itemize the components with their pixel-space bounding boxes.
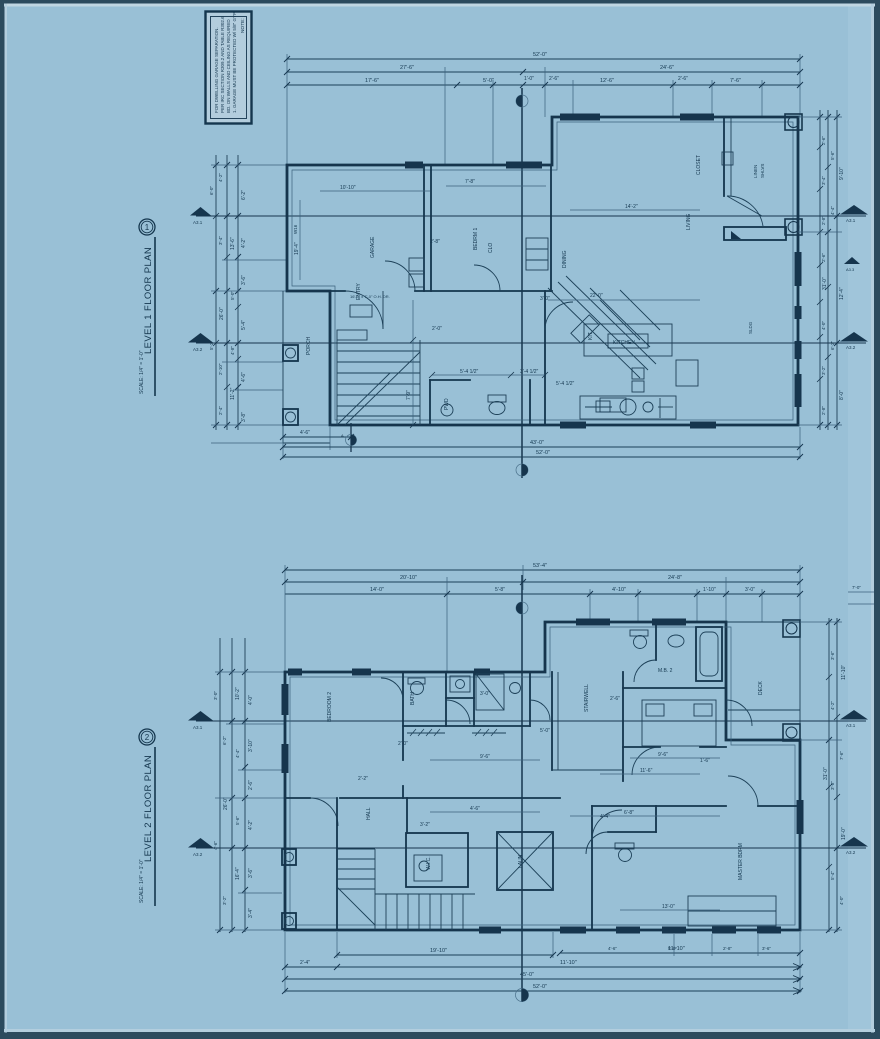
svg-text:2'-8": 2'-8" bbox=[430, 239, 440, 245]
bottom extension verticals plan1 bbox=[282, 427, 284, 459]
window right wall 2 bbox=[795, 374, 802, 407]
svg-text:26'-0": 26'-0" bbox=[219, 307, 225, 320]
svg-text:14'-0": 14'-0" bbox=[370, 587, 384, 593]
svg-text:PER IRC SECTION R309.2 AND TAB: PER IRC SECTION R309.2 AND TABLE R302.6 bbox=[220, 16, 225, 113]
understair diagonal closet bbox=[548, 276, 660, 378]
mb2 tub bbox=[696, 627, 722, 681]
interior dim line powder bbox=[432, 374, 545, 376]
deck inner rail bbox=[728, 709, 800, 711]
inner wall face p2 bbox=[290, 627, 795, 925]
section marker left B bbox=[188, 333, 213, 343]
svg-text:A3.1: A3.1 bbox=[193, 725, 203, 730]
svg-text:PORCH: PORCH bbox=[306, 337, 312, 355]
svg-text:12'-4": 12'-4" bbox=[839, 287, 845, 300]
svg-text:10'-10": 10'-10" bbox=[340, 185, 356, 191]
svg-text:3'-4": 3'-4" bbox=[248, 908, 254, 918]
svg-text:5'-6": 5'-6" bbox=[235, 816, 240, 825]
wall/counter below closet bbox=[724, 227, 786, 240]
hall wall y=798 bbox=[285, 797, 310, 799]
svg-text:24'-6": 24'-6" bbox=[660, 65, 674, 71]
top dimension line total bbox=[287, 58, 800, 60]
svg-text:52'-0": 52'-0" bbox=[536, 450, 550, 456]
section line D (y=848) bbox=[196, 847, 866, 849]
svg-text:5'-0": 5'-0" bbox=[230, 291, 235, 300]
exterior wall outline plan1 bbox=[287, 117, 798, 425]
window block at partition top bbox=[405, 162, 423, 169]
svg-text:BD. ON WALLS AND CEILING AS RE: BD. ON WALLS AND CEILING AS REQUIRED bbox=[226, 19, 231, 113]
windows left wall p2 bbox=[282, 684, 289, 715]
bottom dims p2 bbox=[337, 954, 553, 956]
svg-text:A3.2: A3.2 bbox=[846, 850, 856, 855]
dining door arc bbox=[545, 302, 573, 330]
small marker right mid bbox=[844, 257, 860, 264]
svg-text:3'-2": 3'-2" bbox=[821, 366, 826, 375]
svg-text:20'-10": 20'-10" bbox=[400, 575, 417, 581]
svg-text:3'-4": 3'-4" bbox=[218, 236, 223, 245]
right dim columns p2 bbox=[828, 618, 830, 932]
mb2 sink bbox=[668, 635, 684, 647]
centerline datum top bbox=[521, 88, 523, 478]
light inner strip bottom bbox=[4, 1029, 875, 1032]
small bath walls lower right bbox=[608, 831, 656, 833]
window bath top wall p2 bbox=[474, 669, 490, 676]
window right wall 3 bbox=[795, 306, 802, 319]
dim ticks top bbox=[284, 56, 803, 88]
datum bottom p2 bbox=[516, 989, 529, 1002]
svg-text:3'-2": 3'-2" bbox=[420, 822, 430, 828]
sink powder bbox=[441, 404, 453, 416]
svg-text:10'-2": 10'-2" bbox=[235, 687, 241, 700]
svg-text:ENTRY: ENTRY bbox=[356, 282, 362, 300]
stairs p2 bbox=[337, 849, 475, 930]
svg-text:3'-6": 3'-6" bbox=[241, 275, 247, 285]
stairs plan1 bbox=[337, 340, 420, 425]
title 2: LEVEL 2 FLOOR PLAN bbox=[139, 729, 155, 906]
svg-text:LEVEL 2 FLOOR PLAN: LEVEL 2 FLOOR PLAN bbox=[143, 755, 154, 862]
svg-text:7'-6": 7'-6" bbox=[730, 78, 741, 84]
svg-text:MASTER BDRM: MASTER BDRM bbox=[738, 843, 744, 880]
section marker left D bbox=[188, 838, 213, 848]
svg-text:4'-6": 4'-6" bbox=[213, 841, 218, 850]
bath partition small p2 bbox=[446, 697, 474, 699]
stairwell rail lines p2 bbox=[557, 672, 559, 770]
svg-text:4'-4": 4'-4" bbox=[600, 814, 610, 820]
windows top wall master bbox=[576, 619, 610, 626]
garage/bed partition double wall bbox=[423, 165, 425, 291]
svg-text:53'-4": 53'-4" bbox=[533, 563, 547, 569]
svg-text:7'-8": 7'-8" bbox=[465, 179, 475, 185]
section marker left A bbox=[190, 207, 211, 216]
window right wall 4 bbox=[795, 341, 802, 359]
svg-text:14'-2": 14'-2" bbox=[625, 204, 638, 210]
bedroom door arc bbox=[385, 261, 415, 291]
door arcs extra p2 bbox=[381, 678, 403, 700]
svg-text:4'-2": 4'-2" bbox=[248, 820, 254, 830]
border frame right bbox=[874, 0, 880, 1039]
svg-text:2'-6": 2'-6" bbox=[821, 253, 826, 262]
svg-text:3'-8": 3'-8" bbox=[241, 412, 247, 422]
section marker right A bbox=[840, 205, 868, 215]
svg-text:2: 2 bbox=[145, 733, 150, 742]
window right wall p2 bbox=[797, 800, 804, 834]
svg-text:3'-10": 3'-10" bbox=[248, 739, 254, 752]
section marker left C bbox=[188, 711, 213, 721]
border frame top bbox=[0, 0, 880, 4]
svg-text:A3.2: A3.2 bbox=[193, 347, 203, 352]
svg-text:LEVEL 1 FLOOR PLAN: LEVEL 1 FLOOR PLAN bbox=[143, 247, 154, 354]
svg-text:6'-2": 6'-2" bbox=[830, 341, 835, 350]
kitchen counter bottom bbox=[580, 396, 676, 419]
svg-text:2'-0": 2'-0" bbox=[398, 741, 408, 747]
svg-text:A3.1: A3.1 bbox=[846, 723, 856, 728]
section marker right D bbox=[840, 837, 868, 847]
svg-text:SCALE: 1/4" = 1'-0": SCALE: 1/4" = 1'-0" bbox=[139, 350, 145, 394]
right extensions p2 bbox=[800, 621, 842, 623]
porch column 2 bbox=[283, 409, 298, 425]
svg-text:3'-0": 3'-0" bbox=[745, 587, 755, 593]
window left top wall p2 b bbox=[352, 669, 371, 676]
svg-text:SLDG: SLDG bbox=[748, 321, 753, 334]
svg-text:5'-6": 5'-6" bbox=[830, 151, 835, 160]
powder room walls bbox=[429, 380, 431, 425]
svg-text:2'-8": 2'-8" bbox=[723, 946, 732, 951]
svg-text:26'-0": 26'-0" bbox=[223, 797, 229, 810]
svg-text:22'-0": 22'-0" bbox=[590, 293, 603, 299]
section line B (y=343) bbox=[196, 342, 866, 344]
datum marker bottom centerline bbox=[516, 464, 528, 476]
svg-text:4'-6": 4'-6" bbox=[300, 430, 310, 436]
fridge box right of kitchen bbox=[676, 360, 698, 386]
column square top right bbox=[785, 114, 802, 130]
master door arc bbox=[632, 747, 660, 775]
svg-text:2'-10": 2'-10" bbox=[218, 363, 223, 375]
svg-text:6'-8": 6'-8" bbox=[624, 810, 634, 816]
arrow ends bottom dims p2 bbox=[793, 964, 801, 995]
interior vertical x=337 bbox=[336, 798, 338, 930]
laundry x-box bbox=[497, 832, 553, 890]
mb2 toilet bbox=[634, 636, 647, 649]
top dimension row3 p2 bbox=[285, 593, 800, 595]
svg-text:2'-4": 2'-4" bbox=[300, 960, 310, 966]
svg-text:STAIRWELL: STAIRWELL bbox=[584, 684, 590, 712]
interior vertical dim stairhall bbox=[412, 300, 414, 425]
svg-text:19'-10": 19'-10" bbox=[430, 948, 447, 954]
stairwell wall bbox=[551, 672, 553, 770]
window marks in bottom wall plan1 bbox=[560, 422, 586, 429]
lighter margin band right bbox=[848, 3, 874, 1033]
svg-text:8'-0": 8'-0" bbox=[839, 390, 845, 400]
window top wall left bbox=[506, 162, 542, 169]
svg-text:9'-10": 9'-10" bbox=[839, 167, 845, 180]
svg-text:9'-6": 9'-6" bbox=[480, 754, 490, 760]
mid horizontal wall y=291 bbox=[287, 290, 345, 292]
svg-text:1'-10": 1'-10" bbox=[703, 587, 716, 593]
svg-text:SHLVS: SHLVS bbox=[760, 164, 765, 178]
svg-text:2'-8": 2'-8" bbox=[821, 406, 826, 415]
window left top wall p2 a bbox=[288, 669, 302, 676]
svg-text:BATH: BATH bbox=[410, 692, 416, 705]
stair landing rail bbox=[337, 330, 367, 340]
garage door arc bbox=[345, 291, 383, 329]
left dim columns bbox=[215, 155, 217, 430]
top dimension line row2 bbox=[287, 71, 800, 73]
light inner strip left bbox=[5, 4, 8, 1033]
svg-text:2'-0": 2'-0" bbox=[432, 326, 442, 332]
svg-text:2'-2": 2'-2" bbox=[358, 776, 368, 782]
svg-text:5'-4 1/2": 5'-4 1/2" bbox=[556, 381, 575, 387]
svg-text:1: 1 bbox=[145, 223, 150, 232]
column square right mid bbox=[785, 219, 802, 235]
svg-text:5'-0": 5'-0" bbox=[483, 78, 494, 84]
svg-text:NOTE:: NOTE: bbox=[240, 18, 246, 33]
left dim columns p2 bbox=[219, 638, 221, 932]
svg-text:LIVING: LIVING bbox=[686, 213, 692, 230]
svg-text:3'-0": 3'-0" bbox=[213, 691, 218, 700]
vertical dim inside garage bbox=[299, 200, 301, 280]
bedroom3 walls bbox=[592, 805, 726, 807]
svg-text:4'-0": 4'-0" bbox=[248, 695, 254, 705]
top dimension line total p2 bbox=[285, 569, 800, 571]
deck door arc bbox=[726, 700, 752, 726]
border frame bottom bbox=[0, 1032, 880, 1039]
svg-text:17'-6": 17'-6" bbox=[365, 78, 379, 84]
svg-text:2'-4": 2'-4" bbox=[218, 406, 223, 415]
svg-text:5'-8": 5'-8" bbox=[495, 587, 505, 593]
bedroom2 door arc bbox=[310, 798, 338, 826]
svg-text:11'-10": 11'-10" bbox=[841, 665, 847, 680]
porch p2 columns bbox=[282, 849, 296, 865]
closet bedroom3 bottom bbox=[688, 896, 776, 926]
svg-text:4'-10": 4'-10" bbox=[612, 587, 626, 593]
svg-text:52'-0": 52'-0" bbox=[533, 984, 547, 990]
svg-text:CLO: CLO bbox=[488, 243, 494, 253]
deck outline p2 bbox=[726, 622, 800, 740]
svg-text:3'-0": 3'-0" bbox=[480, 691, 490, 697]
svg-text:3'-0": 3'-0" bbox=[540, 296, 550, 302]
svg-text:13'-6": 13'-6" bbox=[230, 237, 236, 250]
svg-text:19'-0": 19'-0" bbox=[841, 827, 847, 840]
svg-text:3'-6": 3'-6" bbox=[762, 946, 771, 951]
svg-text:3'-4": 3'-4" bbox=[821, 176, 826, 185]
svg-text:9'-6": 9'-6" bbox=[658, 752, 668, 758]
svg-text:4'-6": 4'-6" bbox=[470, 806, 480, 812]
hall wall vertical x=545 bbox=[544, 291, 546, 425]
svg-text:4'-2": 4'-2" bbox=[241, 238, 247, 248]
extension lines from top dims bbox=[286, 54, 288, 165]
svg-text:DINING: DINING bbox=[562, 250, 568, 268]
title 1: LEVEL 1 FLOOR PLAN bbox=[139, 219, 155, 396]
top dimension row2 p2 bbox=[285, 581, 800, 583]
svg-text:4'-8": 4'-8" bbox=[230, 346, 235, 355]
svg-text:12'-6": 12'-6" bbox=[600, 78, 614, 84]
closet shelves bedroom1 bbox=[526, 238, 548, 270]
window top wall right 1 bbox=[560, 114, 600, 121]
svg-text:3'-4 1/2": 3'-4 1/2" bbox=[520, 369, 539, 375]
svg-text:FOR DWELLING GARAGE SEPARATION: FOR DWELLING GARAGE SEPARATION. bbox=[214, 27, 219, 113]
svg-text:7'-0": 7'-0" bbox=[852, 585, 861, 590]
svg-text:CLOSET: CLOSET bbox=[696, 155, 702, 175]
interior dim rows p2 center bbox=[570, 815, 720, 817]
svg-text:4'-0": 4'-0" bbox=[839, 896, 844, 905]
right dim columns plan1 bbox=[819, 110, 821, 430]
svg-text:A3.2: A3.2 bbox=[193, 852, 203, 857]
top dimension line row3 bbox=[287, 84, 800, 86]
wic room bbox=[406, 798, 408, 833]
porch column 1 bbox=[283, 345, 298, 361]
svg-text:4'-0": 4'-0" bbox=[821, 321, 826, 330]
svg-text:11'-2": 11'-2" bbox=[230, 387, 236, 400]
bedroom3 door arc bbox=[592, 810, 622, 840]
bath1 toilet bbox=[411, 682, 424, 695]
svg-text:5'-4": 5'-4" bbox=[830, 871, 835, 880]
svg-text:M.B. 2: M.B. 2 bbox=[658, 668, 673, 674]
svg-text:GARAGE: GARAGE bbox=[370, 236, 376, 258]
svg-text:A3.2: A3.2 bbox=[846, 345, 856, 350]
svg-text:11'-6": 11'-6" bbox=[640, 768, 653, 774]
svg-text:A3.1: A3.1 bbox=[846, 218, 856, 223]
svg-text:6'-0": 6'-0" bbox=[209, 186, 214, 195]
svg-text:PWD: PWD bbox=[444, 398, 450, 410]
windows bottom wall p2 bbox=[479, 927, 501, 934]
left extensions bbox=[211, 164, 287, 166]
svg-text:DECK: DECK bbox=[758, 680, 764, 695]
svg-text:27'-6": 27'-6" bbox=[400, 65, 414, 71]
dishwasher etc small boxes bbox=[600, 398, 626, 412]
section line A (y=216) bbox=[196, 215, 866, 217]
left extensions p2 bbox=[215, 671, 285, 673]
porch lower-left bbox=[283, 291, 330, 443]
svg-text:16'-4": 16'-4" bbox=[235, 867, 241, 880]
small dims top right p2 bbox=[848, 591, 874, 593]
section marker right B bbox=[840, 332, 868, 342]
svg-text:1'-0": 1'-0" bbox=[524, 76, 534, 82]
svg-text:A3.3: A3.3 bbox=[846, 267, 855, 272]
svg-text:BEDRM 1: BEDRM 1 bbox=[473, 228, 479, 250]
dw/ref boxes bbox=[632, 368, 644, 379]
door arc closet bbox=[727, 196, 763, 226]
bath3 lower right fixtures bbox=[619, 849, 632, 862]
svg-text:W.I.C.: W.I.C. bbox=[426, 856, 432, 870]
master bath bottom wall bbox=[623, 687, 726, 689]
section line C (y=721) bbox=[196, 720, 866, 722]
svg-text:2'-8": 2'-8" bbox=[821, 216, 826, 225]
svg-text:4'-2": 4'-2" bbox=[830, 701, 835, 710]
extension lines top p2 bbox=[284, 565, 286, 672]
svg-text:7'-9": 7'-9" bbox=[406, 390, 412, 400]
svg-text:2'-6": 2'-6" bbox=[549, 76, 559, 82]
svg-text:1. GARAGE MUST BE PROTECTED W/: 1. GARAGE MUST BE PROTECTED W/ 5/8" GYP bbox=[232, 12, 237, 113]
svg-text:1'-6": 1'-6" bbox=[700, 758, 710, 764]
interior: hall bath walls bbox=[402, 672, 404, 760]
svg-text:BEDROOM 2: BEDROOM 2 bbox=[327, 692, 333, 722]
svg-text:19'-4": 19'-4" bbox=[294, 242, 300, 255]
svg-text:11'-10": 11'-10" bbox=[560, 960, 577, 966]
master wall bottom bbox=[623, 746, 660, 748]
closet wall top right (double) bbox=[723, 117, 725, 196]
centerline p2 bbox=[521, 575, 523, 1002]
border frame left bbox=[0, 0, 5, 1039]
svg-text:24'-8": 24'-8" bbox=[668, 575, 682, 581]
svg-text:LINEN: LINEN bbox=[753, 165, 758, 178]
light inner strip top bbox=[4, 4, 875, 7]
svg-text:4'-4": 4'-4" bbox=[235, 749, 240, 758]
right extensions bbox=[798, 116, 842, 118]
svg-text:4'-6": 4'-6" bbox=[241, 372, 247, 382]
svg-text:5'-4 1/2": 5'-4 1/2" bbox=[460, 369, 479, 375]
svg-text:52'-0": 52'-0" bbox=[533, 52, 547, 58]
dims above master bed bbox=[630, 757, 720, 759]
svg-text:4'-2": 4'-2" bbox=[218, 173, 223, 182]
kitchen island bbox=[584, 324, 672, 356]
master bed bbox=[642, 700, 716, 746]
section marker right C bbox=[840, 710, 868, 720]
svg-text:5'-0": 5'-0" bbox=[540, 728, 550, 734]
svg-text:A: A bbox=[341, 433, 344, 438]
svg-text:SCALE: 1/4" = 1'-0": SCALE: 1/4" = 1'-0" bbox=[139, 859, 145, 903]
datum marker garage centerline bbox=[350, 423, 352, 452]
svg-text:43'-0": 43'-0" bbox=[530, 440, 544, 446]
svg-text:4'-6": 4'-6" bbox=[608, 946, 617, 951]
shower bath2 p2 bbox=[476, 674, 504, 710]
svg-text:A3.1: A3.1 bbox=[193, 220, 203, 225]
inner wall face plan1 bbox=[292, 122, 793, 420]
dining/bedroom wall bbox=[550, 165, 552, 291]
bottom dims plan1 bbox=[283, 436, 351, 438]
svg-text:W16: W16 bbox=[293, 224, 298, 234]
bottom extension verticals p2 bbox=[284, 932, 286, 993]
window top wall right 2 bbox=[680, 114, 714, 121]
svg-text:2'-6": 2'-6" bbox=[610, 696, 620, 702]
svg-text:7'-6": 7'-6" bbox=[839, 751, 844, 760]
mb2 partition bbox=[655, 622, 657, 660]
svg-text:3'-2": 3'-2" bbox=[222, 896, 227, 905]
svg-text:HALL: HALL bbox=[366, 807, 372, 820]
svg-text:6'-2": 6'-2" bbox=[241, 190, 247, 200]
deck column top bbox=[783, 620, 800, 637]
light inner strip right bbox=[871, 4, 874, 1033]
svg-text:13'-0": 13'-0" bbox=[662, 904, 675, 910]
svg-text:2'-6": 2'-6" bbox=[678, 76, 688, 82]
svg-text:6'-2": 6'-2" bbox=[222, 736, 227, 745]
svg-text:KIT: KIT bbox=[588, 332, 594, 340]
svg-text:5'-8": 5'-8" bbox=[668, 946, 677, 951]
toilet bbox=[489, 402, 505, 415]
door arc mid bbox=[474, 265, 500, 291]
deck column bottom bbox=[783, 724, 800, 741]
exterior wall outline p2 bbox=[285, 622, 800, 930]
svg-text:4'-4": 4'-4" bbox=[830, 206, 835, 215]
svg-text:2'-6": 2'-6" bbox=[248, 780, 254, 790]
small fixture entry bbox=[350, 305, 372, 317]
svg-text:3'-6": 3'-6" bbox=[830, 651, 835, 660]
svg-text:LAUN: LAUN bbox=[518, 854, 524, 868]
svg-text:2'-6": 2'-6" bbox=[821, 136, 826, 145]
svg-text:45'-0": 45'-0" bbox=[520, 972, 534, 978]
window right wall 1 bbox=[795, 252, 802, 286]
svg-text:31'-0": 31'-0" bbox=[823, 767, 829, 780]
svg-text:5'-4": 5'-4" bbox=[241, 320, 247, 330]
water heater platform bbox=[409, 258, 424, 271]
svg-text:3'-6": 3'-6" bbox=[248, 868, 254, 878]
note box bbox=[206, 12, 252, 124]
bath1 door arc bbox=[446, 700, 470, 724]
